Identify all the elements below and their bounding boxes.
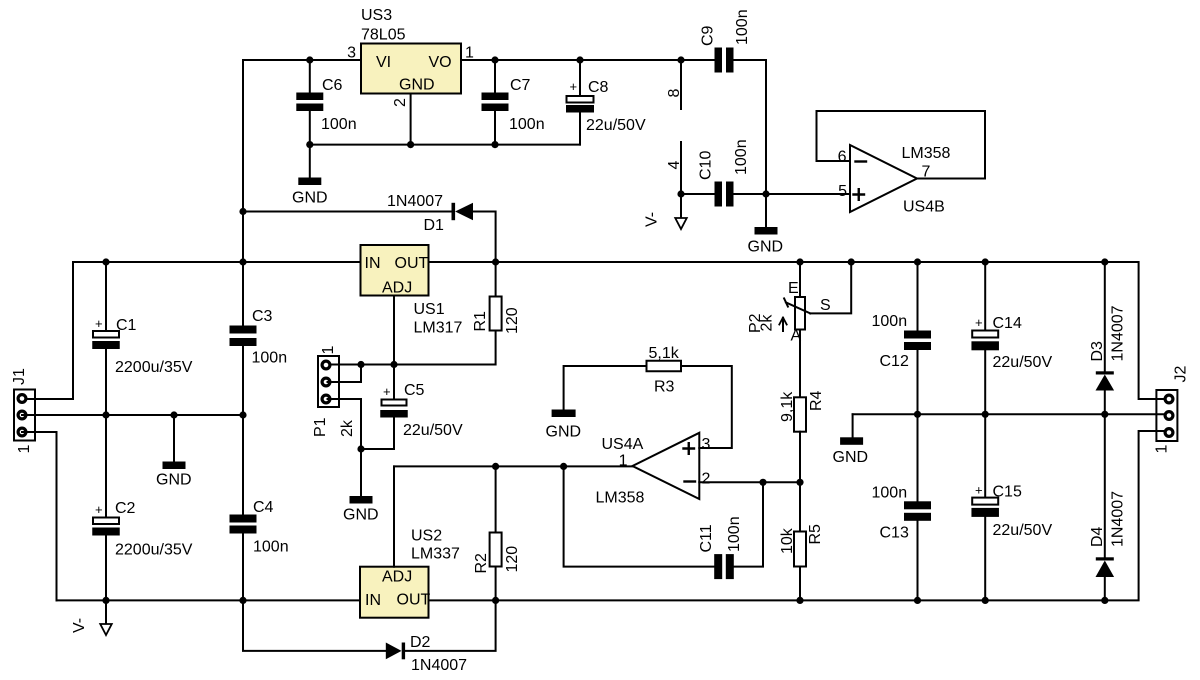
svg-text:22u/50V: 22u/50V [993, 522, 1053, 539]
svg-text:100n: 100n [726, 516, 743, 552]
svg-text:C14: C14 [993, 315, 1022, 332]
svg-text:+: + [570, 79, 578, 94]
svg-text:22u/50V: 22u/50V [403, 422, 463, 439]
svg-text:+: + [95, 502, 103, 517]
svg-text:2k: 2k [759, 314, 776, 332]
svg-text:IN: IN [365, 255, 381, 272]
svg-text:A: A [791, 328, 802, 345]
svg-text:OUT: OUT [397, 592, 431, 609]
svg-text:V-: V- [644, 212, 661, 227]
svg-text:100n: 100n [872, 485, 908, 502]
svg-text:8: 8 [666, 89, 683, 98]
svg-text:1N4007: 1N4007 [387, 193, 443, 210]
svg-text:GND: GND [748, 239, 784, 256]
svg-text:+: + [975, 483, 983, 498]
svg-text:22u/50V: 22u/50V [586, 117, 646, 134]
svg-text:2k: 2k [339, 419, 356, 437]
svg-text:D3: D3 [1089, 341, 1106, 362]
svg-text:22u/50V: 22u/50V [993, 354, 1053, 371]
svg-text:GND: GND [343, 507, 379, 524]
svg-text:2200u/35V: 2200u/35V [115, 542, 193, 559]
svg-text:C9: C9 [700, 25, 717, 46]
svg-text:ADJ: ADJ [382, 569, 412, 586]
svg-text:9,1k: 9,1k [779, 391, 796, 422]
svg-text:D2: D2 [410, 634, 431, 651]
svg-text:D1: D1 [424, 217, 445, 234]
svg-text:2: 2 [702, 471, 711, 488]
svg-text:V-: V- [71, 618, 88, 633]
svg-text:2200u/35V: 2200u/35V [115, 359, 193, 376]
svg-text:C6: C6 [322, 77, 343, 94]
svg-text:7: 7 [922, 164, 931, 181]
svg-text:P1: P1 [312, 417, 329, 437]
svg-text:OUT: OUT [395, 255, 429, 272]
svg-text:120: 120 [504, 307, 521, 334]
svg-text:1: 1 [619, 453, 628, 470]
svg-text:US1: US1 [414, 301, 445, 318]
svg-text:78L05: 78L05 [361, 27, 406, 44]
svg-text:5,1k: 5,1k [649, 345, 680, 362]
svg-text:C11: C11 [698, 524, 715, 552]
svg-text:100n: 100n [509, 116, 545, 133]
svg-text:GND: GND [156, 472, 192, 489]
svg-text:D4: D4 [1089, 526, 1106, 547]
svg-text:1: 1 [1154, 445, 1171, 454]
svg-text:E: E [788, 280, 799, 297]
svg-text:GND: GND [292, 190, 328, 207]
svg-text:VO: VO [429, 54, 452, 71]
svg-text:LM358: LM358 [596, 490, 645, 507]
svg-text:J2: J2 [1173, 366, 1190, 383]
svg-text:C12: C12 [880, 353, 909, 370]
svg-text:LM337: LM337 [411, 546, 460, 563]
svg-text:+: + [383, 384, 391, 399]
svg-text:C3: C3 [252, 308, 273, 325]
svg-text:+: + [975, 315, 983, 330]
svg-text:C10: C10 [698, 151, 715, 180]
svg-text:100n: 100n [321, 116, 357, 133]
svg-text:100n: 100n [734, 9, 751, 45]
svg-text:S: S [820, 297, 831, 314]
svg-text:C4: C4 [253, 499, 274, 516]
svg-text:GND: GND [833, 449, 869, 466]
svg-text:C7: C7 [510, 77, 531, 94]
svg-text:C1: C1 [116, 317, 137, 334]
svg-text:GND: GND [546, 424, 582, 441]
svg-text:1: 1 [465, 45, 474, 62]
svg-text:1N4007: 1N4007 [1110, 305, 1127, 361]
svg-text:5: 5 [838, 183, 847, 200]
svg-text:1N4007: 1N4007 [1110, 491, 1127, 547]
svg-text:IN: IN [365, 592, 381, 609]
svg-text:120: 120 [504, 546, 521, 573]
svg-text:VI: VI [376, 54, 391, 71]
svg-text:100n: 100n [253, 539, 289, 556]
svg-text:3: 3 [702, 436, 711, 453]
svg-text:R5: R5 [807, 524, 824, 545]
svg-text:US4B: US4B [903, 199, 945, 216]
svg-text:2: 2 [392, 98, 409, 107]
svg-text:C5: C5 [404, 382, 425, 399]
svg-text:100n: 100n [252, 350, 288, 367]
svg-text:J1: J1 [11, 368, 28, 385]
svg-text:100n: 100n [733, 139, 750, 175]
svg-text:US4A: US4A [602, 436, 644, 453]
svg-text:6: 6 [838, 149, 847, 166]
svg-text:100n: 100n [872, 313, 908, 330]
svg-text:ADJ: ADJ [382, 280, 412, 297]
svg-text:4: 4 [666, 161, 683, 170]
svg-text:R3: R3 [654, 379, 675, 396]
svg-text:LM317: LM317 [414, 320, 463, 337]
svg-text:R2: R2 [473, 553, 490, 574]
svg-text:C2: C2 [115, 500, 136, 517]
svg-text:R1: R1 [472, 311, 489, 332]
svg-text:US3: US3 [361, 7, 392, 24]
svg-text:+: + [95, 316, 103, 331]
svg-text:LM358: LM358 [902, 145, 951, 162]
svg-text:3: 3 [347, 45, 356, 62]
svg-text:1: 1 [16, 445, 33, 454]
svg-text:US2: US2 [411, 528, 442, 545]
svg-text:GND: GND [399, 77, 435, 94]
svg-text:R4: R4 [808, 390, 825, 411]
svg-text:10k: 10k [779, 527, 796, 554]
svg-text:C8: C8 [588, 79, 609, 96]
svg-text:C13: C13 [880, 525, 909, 542]
svg-text:C15: C15 [993, 484, 1022, 501]
svg-text:1N4007: 1N4007 [411, 657, 467, 674]
svg-text:1: 1 [320, 346, 337, 355]
